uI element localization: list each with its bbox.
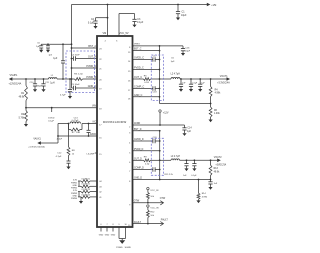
node +VM terminal xyxy=(207,3,216,7)
pin label GND_A xyxy=(88,85,103,91)
capacitor C23 xyxy=(133,167,174,176)
svg-text:R13: R13 xyxy=(214,168,219,170)
junction feedback tap xyxy=(25,107,27,109)
wire PVDD_C xyxy=(128,67,160,74)
svg-text:VM: VM xyxy=(102,32,106,35)
svg-text:8: 8 xyxy=(112,224,113,226)
svg-text:DRV8412DDW: DRV8412DDW xyxy=(103,120,127,124)
capacitor output 1nF xyxy=(179,78,186,89)
svg-text:OC/SET4: OC/SET4 xyxy=(81,194,90,196)
capacitor output 0.1&#181;F xyxy=(189,78,198,89)
svg-text:PGND: PGND xyxy=(116,247,123,249)
net OUT_C column xyxy=(159,46,161,104)
node VOUT1 xyxy=(217,76,230,84)
resistor R13 xyxy=(209,160,220,179)
wire BST_D short row xyxy=(129,129,160,135)
svg-text:BST_A: BST_A xyxy=(88,45,96,48)
junction rail row2 xyxy=(71,58,73,60)
svg-text:COMP_C: COMP_C xyxy=(134,86,145,89)
svg-text:3.3V: 3.3V xyxy=(73,180,78,182)
resistor R10 xyxy=(78,178,102,183)
svg-text:C5 10nF: C5 10nF xyxy=(71,84,80,86)
wire AVDD_D row xyxy=(129,122,184,128)
capacitor C20 xyxy=(133,137,161,143)
svg-text:1µH: 1µH xyxy=(50,82,55,84)
svg-text:COMP_D: COMP_D xyxy=(134,168,144,170)
svg-text:BST_C: BST_C xyxy=(134,49,142,51)
capacitor C4 xyxy=(71,55,97,61)
svg-text:4.7µF: 4.7µF xyxy=(60,94,66,96)
node VCC_IN pullup2 xyxy=(147,205,159,210)
capacitor C11 xyxy=(36,78,49,89)
svg-text:0.1µF: 0.1µF xyxy=(48,121,54,123)
pin label VCC_5V xyxy=(119,32,129,35)
pin label OUT_A xyxy=(88,56,102,62)
svg-text:VCC_IN: VCC_IN xyxy=(150,190,158,192)
junction divider1 top xyxy=(210,78,212,80)
svg-text:NC: NC xyxy=(93,122,97,124)
wire VSENSE to IC xyxy=(26,105,102,111)
resistor R8 xyxy=(67,124,75,161)
svg-text:GVDD_C: GVDD_C xyxy=(134,57,144,60)
inductor L4 bead xyxy=(70,117,80,123)
svg-text:OTW: OTW xyxy=(160,198,166,200)
svg-text:49.9k: 49.9k xyxy=(214,172,220,174)
ground C14 xyxy=(182,133,186,136)
ground C10 xyxy=(33,89,37,92)
capacitor C16 xyxy=(181,46,191,53)
svg-text:49.9k: 49.9k xyxy=(19,97,25,99)
net +12V rail xyxy=(12,78,71,80)
ground control block xyxy=(79,197,83,204)
ground C1 xyxy=(176,18,180,21)
svg-text:GND_D: GND_D xyxy=(134,178,142,180)
svg-text:GND: GND xyxy=(73,185,78,187)
svg-text:0.1µF: 0.1µF xyxy=(191,175,197,177)
node DVDD tap xyxy=(48,107,55,123)
svg-text:GND: GND xyxy=(111,235,116,237)
junction divider2 top xyxy=(210,159,212,161)
wire +12V drop xyxy=(159,112,161,126)
capacitor C3 xyxy=(132,14,143,25)
junction C2 tap xyxy=(107,17,109,19)
capacitor C17 xyxy=(133,56,161,62)
svg-text:0.1µF: 0.1µF xyxy=(88,21,95,24)
svg-text:C4 10nF: C4 10nF xyxy=(71,55,80,57)
inductor L2 xyxy=(160,74,227,79)
pin GND bottom 1 xyxy=(99,224,104,237)
node VAUX1 input xyxy=(28,138,45,149)
svg-text:+VM: +VM xyxy=(211,4,216,7)
svg-text:GND: GND xyxy=(105,235,110,237)
wire pin BST_A xyxy=(72,45,103,51)
svg-text:OUT_A: OUT_A xyxy=(88,56,96,59)
ground C24 xyxy=(208,187,212,190)
svg-text:VAUX1: VAUX1 xyxy=(33,138,41,141)
svg-text:GND: GND xyxy=(99,235,104,237)
resistor R14 xyxy=(197,180,208,201)
capacitor C24 xyxy=(208,180,218,188)
ground R14 xyxy=(196,200,200,203)
svg-text:10µF: 10µF xyxy=(181,14,187,17)
wire DVDD row xyxy=(58,122,102,127)
svg-text:4.7µF: 4.7µF xyxy=(56,156,62,158)
pin GND bottom 3 xyxy=(111,224,116,237)
ground C21 xyxy=(184,168,188,171)
svg-text:PVDD_D: PVDD_D xyxy=(134,149,144,151)
pin label PVDD_B xyxy=(86,76,102,82)
svg-text:VCC_IN: VCC_IN xyxy=(150,207,158,209)
wire FB_D row xyxy=(129,178,211,184)
optional box left xyxy=(66,51,95,93)
resistor R7 xyxy=(69,124,83,135)
resistor R12 xyxy=(147,207,156,224)
capacitor C9 xyxy=(60,78,72,96)
pin label VM xyxy=(102,32,106,35)
svg-text:L2 4.7µH: L2 4.7µH xyxy=(171,74,181,76)
svg-text:VSUP1: VSUP1 xyxy=(10,74,19,77)
junction FB1 xyxy=(210,103,212,105)
pin label COMP_C xyxy=(128,86,145,93)
capacitor C1 xyxy=(176,4,187,18)
svg-text:+5VDC/3A: +5VDC/3A xyxy=(215,164,226,167)
svg-text:AVDD: AVDD xyxy=(90,133,97,136)
ground cap 0.1&#181;F xyxy=(189,89,193,92)
svg-text:GVDD_D: GVDD_D xyxy=(134,139,144,141)
resistor R5 xyxy=(133,75,161,84)
ground C11 xyxy=(41,89,45,92)
resistor R1 xyxy=(19,79,28,108)
svg-text:OUT_C: OUT_C xyxy=(134,76,142,79)
pin label OUT_D xyxy=(129,158,142,164)
node VSUP1 input xyxy=(9,74,22,85)
capacitor C18 xyxy=(133,86,161,93)
node +12V xyxy=(159,110,169,115)
capacitor C12 xyxy=(56,153,71,167)
signal input PWM4 xyxy=(71,196,78,201)
capacitor C14 xyxy=(182,125,192,133)
inductor L3 xyxy=(160,156,218,160)
wire VM pin drop xyxy=(107,5,109,37)
capacitor C5 xyxy=(71,84,97,90)
resistor R2 xyxy=(19,108,28,124)
svg-text:BST_D: BST_D xyxy=(134,129,142,131)
ground C8 xyxy=(46,50,50,53)
resistor R11 xyxy=(147,190,155,204)
svg-text:R15 2.2k: R15 2.2k xyxy=(165,174,174,176)
svg-text:VOUT1: VOUT1 xyxy=(220,76,228,78)
svg-text:+3.3VDC/4A: +3.3VDC/4A xyxy=(217,82,230,85)
capacitor note C5 xyxy=(171,58,175,63)
junction rail row1 xyxy=(71,47,73,49)
capacitor C7 xyxy=(49,43,65,80)
signal input PWM2 xyxy=(71,185,78,190)
ground C3 xyxy=(132,25,136,28)
ground C2 xyxy=(93,26,97,29)
junction rail row4 xyxy=(71,78,73,80)
pin GND bottom 2 xyxy=(105,224,110,237)
resistor R13 xyxy=(78,194,102,199)
svg-text:1.00k: 1.00k xyxy=(214,113,220,115)
ground C16 xyxy=(181,53,185,56)
svg-text:AVDD: AVDD xyxy=(134,122,141,125)
svg-text:+3.3VDC/100mA: +3.3VDC/100mA xyxy=(28,146,45,149)
svg-text:PWM4: PWM4 xyxy=(71,198,78,200)
svg-text:0.1µF: 0.1µF xyxy=(137,21,144,24)
ground C6 xyxy=(39,50,43,53)
svg-text:2.2Ω: 2.2Ω xyxy=(78,73,83,75)
wire OTW row xyxy=(129,198,166,207)
svg-text:+12VDC/4A: +12VDC/4A xyxy=(9,82,22,85)
capacitor C10 xyxy=(30,78,38,89)
wire to C2 xyxy=(96,17,108,19)
svg-text:6: 6 xyxy=(100,224,101,226)
svg-text:4.99k: 4.99k xyxy=(202,197,208,199)
svg-text:DVDD: DVDD xyxy=(48,117,55,119)
svg-text:L3-DNP: L3-DNP xyxy=(87,153,95,155)
wire FB1 run xyxy=(160,103,211,105)
svg-text:PVDD_C: PVDD_C xyxy=(134,67,144,70)
inductor L1 xyxy=(49,75,57,84)
svg-text:10µF: 10µF xyxy=(185,51,191,53)
svg-text:OUT_D: OUT_D xyxy=(134,158,142,160)
svg-text:C14: C14 xyxy=(187,128,192,130)
optional box right lower xyxy=(151,138,163,175)
svg-text:VIN: VIN xyxy=(92,105,96,108)
resistor R6 xyxy=(209,104,220,120)
svg-text:GND_A: GND_A xyxy=(88,85,97,88)
op-amp U1 DRV8412DDW xyxy=(97,36,133,227)
pin PGND stubs xyxy=(118,224,126,239)
capacitor C2 xyxy=(88,18,98,26)
resistor R9 xyxy=(133,157,161,166)
svg-text:0.47µF: 0.47µF xyxy=(72,120,80,122)
capacitor C13 xyxy=(87,124,91,137)
junction rail row3 xyxy=(71,67,73,69)
svg-text:10: 10 xyxy=(124,224,126,226)
wire PVDD_D xyxy=(129,149,160,155)
wire VREG row xyxy=(129,44,183,50)
svg-text:7: 7 xyxy=(106,224,107,226)
svg-text:+12V: +12V xyxy=(163,111,169,114)
optional box right top xyxy=(151,55,163,101)
svg-text:680µF: 680µF xyxy=(36,86,42,88)
capacitor C21 xyxy=(183,159,189,177)
svg-text:0.1Ω: 0.1Ω xyxy=(145,163,150,165)
svg-text:1µF: 1µF xyxy=(171,61,175,63)
svg-text:3.3V: 3.3V xyxy=(73,190,78,192)
resistor R11 xyxy=(78,184,102,189)
svg-text:VOUT2: VOUT2 xyxy=(214,157,222,159)
node VCC_IN pullup1 xyxy=(147,187,159,191)
wire VAUX riser xyxy=(57,124,59,144)
wire bst cap feed xyxy=(41,43,72,45)
svg-text:FAULT: FAULT xyxy=(134,221,142,224)
pin label GVDD_C xyxy=(128,57,144,64)
ground cap 1nF xyxy=(179,89,183,92)
wire link rows 3-4 xyxy=(78,192,80,197)
wire FB_C row xyxy=(128,94,160,101)
wire BST_C xyxy=(128,49,160,55)
svg-text:GND: GND xyxy=(73,196,78,198)
svg-text:FAULT: FAULT xyxy=(161,218,169,221)
ground R2 xyxy=(24,124,28,127)
node VOUT2 xyxy=(214,157,227,167)
junction rail row5 stub xyxy=(71,79,73,88)
pin label COMP_D xyxy=(129,168,144,174)
signal input PWM1 xyxy=(71,180,78,185)
signal input PWM3 xyxy=(71,190,78,195)
capacitor C6 xyxy=(36,43,43,50)
ground C19 xyxy=(198,89,202,92)
pin label OUT_C xyxy=(128,76,142,83)
ground C9 xyxy=(68,96,72,99)
resistor R3 xyxy=(72,73,98,80)
wire L3-DNP stub xyxy=(87,153,103,156)
capacitor C8 xyxy=(46,43,50,49)
svg-text:VREG: VREG xyxy=(134,44,140,46)
pin number top pins xyxy=(105,41,119,43)
svg-text:SGND: SGND xyxy=(125,247,132,249)
svg-text:GND_C: GND_C xyxy=(134,94,143,97)
net +VM top rail xyxy=(72,4,208,6)
svg-text:1µF: 1µF xyxy=(53,58,58,60)
svg-text:9: 9 xyxy=(118,224,119,226)
ground C22 xyxy=(192,168,196,171)
ground PGND xyxy=(116,239,131,250)
wire VAUX1 xyxy=(41,142,58,144)
svg-text:4.7µF: 4.7µF xyxy=(57,138,63,140)
ground C12 xyxy=(66,167,70,170)
svg-text:1µF: 1µF xyxy=(187,131,192,133)
wire link rows 1-2 xyxy=(78,181,80,186)
svg-text:VCC_5V: VCC_5V xyxy=(119,32,129,35)
svg-text:OC/SET1: OC/SET1 xyxy=(81,178,90,180)
svg-text:OC/SET3: OC/SET3 xyxy=(81,189,90,191)
wire pin PVDD_A xyxy=(72,65,103,71)
wire VDD pin riser xyxy=(119,14,135,37)
wire AVDD row xyxy=(57,133,103,140)
svg-text:5.76k: 5.76k xyxy=(19,118,25,120)
junction divider xyxy=(25,78,27,80)
svg-text:L3 4.7µH: L3 4.7µH xyxy=(171,156,181,158)
wire left rail vertical xyxy=(71,5,73,80)
junction VM drop xyxy=(107,4,109,6)
pin label GVDD_D xyxy=(129,139,144,145)
svg-text:0.1Ω: 0.1Ω xyxy=(144,82,149,84)
resistor R12 xyxy=(78,189,102,194)
resistor R4 xyxy=(209,79,221,104)
wire FAULT row xyxy=(128,218,168,227)
svg-text:4.99k: 4.99k xyxy=(215,93,221,95)
svg-text:OTW: OTW xyxy=(134,201,140,203)
ground R6 xyxy=(209,120,213,123)
capacitor C19 xyxy=(198,78,205,89)
svg-text:10Ω: 10Ω xyxy=(76,132,80,134)
svg-text:OC/SET2: OC/SET2 xyxy=(81,184,90,186)
svg-text:0.1µF: 0.1µF xyxy=(192,82,198,84)
net OUT_D column xyxy=(159,131,161,180)
capacitor C22 xyxy=(191,159,197,177)
